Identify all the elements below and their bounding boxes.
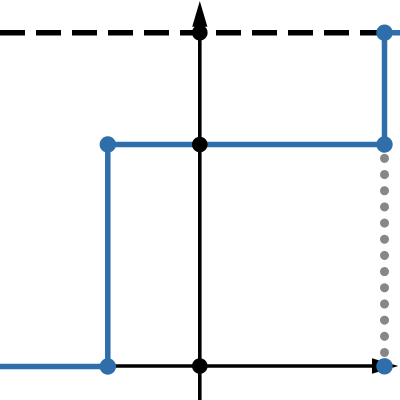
blue point (x2, F1) xyxy=(376,136,392,152)
black node at y-axis / asymptote intersection xyxy=(192,25,208,41)
black node at origin xyxy=(192,358,208,374)
black node at y-axis / F1 level intersection xyxy=(192,137,208,153)
blue point (x2, 1) xyxy=(376,25,392,41)
dashed asymptote line y=1 xyxy=(0,30,386,36)
x-axis arrowhead xyxy=(372,358,398,373)
blue point (x1, 0) xyxy=(100,358,116,374)
blue point (x2, 0) on x-axis xyxy=(376,358,392,374)
y-axis arrowhead xyxy=(192,1,207,27)
x-axis xyxy=(0,364,386,368)
y-axis xyxy=(198,14,202,400)
gray dotted vertical line at x2 xyxy=(380,158,389,354)
blue point (x1, F1) xyxy=(100,136,116,152)
